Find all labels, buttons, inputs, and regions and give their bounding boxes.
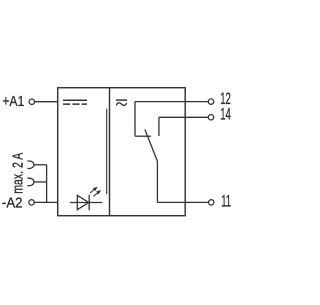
- svg-text:+A1: +A1: [2, 93, 24, 110]
- LED arrow 1: [90, 188, 97, 193]
- LED anode lead wire: [70, 202, 103, 204]
- terminal circle 11: [209, 200, 214, 205]
- terminal circle -A2: [29, 200, 34, 205]
- pole 14 vertical: [158, 117, 160, 136]
- label 11: [221, 192, 231, 210]
- isolation line: [106, 109, 108, 194]
- module outline K1: [58, 88, 186, 216]
- wire 14: [159, 116, 208, 118]
- LED D1 triangle: [77, 195, 88, 209]
- relay lever NC contact: [145, 130, 158, 162]
- AC symbol bar: [116, 99, 127, 101]
- fork terminal bridge 2: [27, 178, 34, 186]
- wire fork1 to bus: [33, 164, 46, 166]
- label 14: [220, 105, 231, 123]
- fork terminal bridge 1: [27, 161, 34, 169]
- AC symbol tilde: [116, 103, 126, 106]
- lever pole vertical: [156, 161, 158, 202]
- DC symbol solid bar: [63, 99, 87, 101]
- label +A1: [2, 93, 24, 110]
- terminal circle +A1: [29, 99, 34, 104]
- DC symbol dashed bar: [63, 103, 87, 105]
- svg-text:-A2: -A2: [2, 194, 23, 211]
- divider input/output: [109, 88, 111, 216]
- terminal circle 14: [208, 115, 213, 120]
- label max. 2 A: [8, 152, 25, 193]
- wire -A2: [34, 201, 58, 203]
- LED D1 cathode bar: [88, 195, 90, 211]
- LED arrow 2: [93, 191, 100, 197]
- wire 12: [135, 101, 208, 103]
- wire fork2 to bus: [33, 181, 46, 183]
- bus wire vertical: [46, 165, 48, 203]
- terminal circle 12: [208, 99, 213, 104]
- svg-text:14: 14: [220, 105, 231, 123]
- contact 12 fixed tick: [135, 135, 151, 137]
- pole 12 vertical: [134, 102, 136, 137]
- svg-text:11: 11: [221, 192, 231, 210]
- label -A2: [2, 194, 23, 211]
- wire 11: [157, 201, 208, 203]
- wire +A1: [35, 101, 58, 103]
- svg-text:max. 2 A: max. 2 A: [8, 152, 25, 193]
- label 12: [220, 89, 231, 107]
